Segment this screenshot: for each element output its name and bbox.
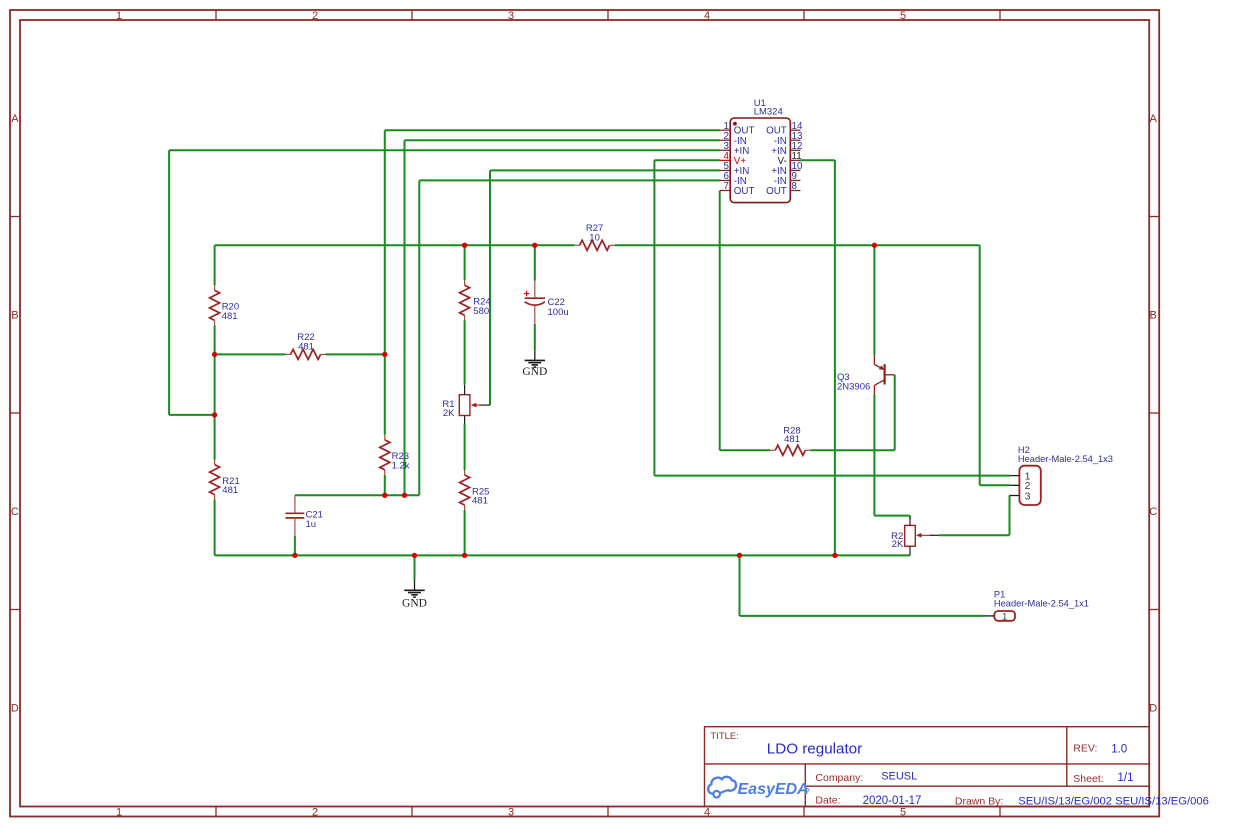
- wire: [489, 170, 491, 405]
- U1 pin 5 (+IN): [720, 161, 749, 177]
- svg-text:100u: 100u: [548, 307, 569, 318]
- transistor Q3 2N3906: [837, 355, 895, 395]
- svg-text:4: 4: [704, 806, 710, 818]
- svg-text:2K: 2K: [443, 408, 455, 419]
- svg-text:2K: 2K: [892, 539, 904, 550]
- svg-text:2020-01-17: 2020-01-17: [863, 795, 922, 807]
- svg-text:481: 481: [298, 342, 314, 353]
- junction node R20/R22: [212, 352, 217, 357]
- ground GND (C22): [522, 350, 547, 378]
- wire: [169, 414, 215, 416]
- wire: [873, 245, 875, 355]
- resistor R20: [210, 285, 240, 325]
- svg-text:4: 4: [704, 10, 710, 22]
- svg-text:A: A: [1150, 113, 1158, 125]
- wire: [214, 325, 216, 354]
- svg-text:Sheet:: Sheet:: [1073, 773, 1103, 785]
- junction node GND/bottom-rail: [412, 553, 417, 558]
- svg-text:1/1: 1/1: [1118, 772, 1134, 784]
- svg-text:5: 5: [900, 10, 906, 22]
- svg-text:LDO regulator: LDO regulator: [767, 741, 862, 758]
- junction node R23-bottom: [382, 493, 387, 498]
- wire: [719, 191, 721, 451]
- wire: [654, 475, 1009, 477]
- resistor R27: [575, 223, 615, 250]
- svg-text:GND: GND: [402, 597, 427, 609]
- wire: [384, 130, 386, 435]
- U1 pin 9 (-IN): [774, 171, 801, 187]
- resistor R22: [286, 332, 326, 359]
- wire: [405, 139, 721, 141]
- svg-text:Drawn By:: Drawn By:: [955, 795, 1003, 807]
- wire: [214, 245, 216, 285]
- resistor R21: [210, 460, 240, 500]
- wire: [740, 615, 986, 617]
- svg-text:580: 580: [473, 306, 489, 317]
- resistor R24: [460, 280, 491, 320]
- U1 pin 3 (+IN): [720, 141, 749, 157]
- wire: [384, 475, 386, 495]
- wire: [490, 169, 720, 171]
- svg-text:2N3906: 2N3906: [837, 382, 870, 393]
- junction node C22/top-rail: [532, 243, 537, 248]
- wire: [894, 375, 896, 450]
- wire: [214, 500, 216, 556]
- wire: [739, 555, 741, 616]
- wire: [810, 449, 894, 451]
- wire: [215, 244, 575, 246]
- svg-text:7: 7: [724, 181, 729, 192]
- svg-text:SEUSL: SEUSL: [881, 770, 917, 782]
- svg-text:Header-Male-2.54_1x3: Header-Male-2.54_1x3: [1018, 454, 1113, 464]
- wire: [979, 245, 981, 485]
- svg-text:B: B: [1150, 310, 1157, 322]
- svg-text:TITLE:: TITLE:: [710, 731, 739, 742]
- junction node pin3-net: [212, 412, 217, 417]
- svg-text:1u: 1u: [306, 519, 317, 530]
- svg-text:481: 481: [222, 311, 238, 322]
- junction node V-/bottom-rail: [832, 553, 837, 558]
- U1 pin 2 (-IN): [720, 131, 747, 147]
- svg-text:1.2k: 1.2k: [392, 460, 410, 471]
- svg-text:Company:: Company:: [815, 772, 863, 784]
- svg-text:5: 5: [900, 806, 906, 818]
- svg-text:Date:: Date:: [815, 795, 840, 807]
- wire: [720, 449, 771, 451]
- svg-text:SEU/IS/13/EG/002 SEU/IS/13/EG/: SEU/IS/13/EG/002 SEU/IS/13/EG/006: [1018, 796, 1209, 808]
- svg-text:C: C: [11, 506, 19, 518]
- wire: [168, 150, 170, 415]
- wire: [464, 510, 466, 555]
- svg-text:REV:: REV:: [1073, 742, 1097, 754]
- header P1 Header-Male-2.54_1x1: [985, 590, 1089, 623]
- wire: [326, 353, 385, 355]
- resistor R28: [770, 426, 810, 456]
- U1 pin 1 (OUT): [720, 121, 754, 137]
- junction node R22/R23: [382, 352, 387, 357]
- svg-text:3: 3: [1025, 490, 1031, 502]
- potentiometer R2: [891, 525, 915, 550]
- R1 wiper arrow: [465, 385, 490, 424]
- svg-text:B: B: [11, 310, 18, 322]
- U1 pin 10 (+IN): [771, 161, 803, 177]
- wire: [874, 515, 910, 517]
- U1 pin 6 (-IN): [720, 171, 747, 187]
- junction node C21/bottom-rail: [292, 553, 297, 558]
- junction node R25/bottom-rail: [462, 553, 467, 558]
- svg-text:3: 3: [508, 10, 514, 22]
- U1 pin 11 (V-): [778, 151, 802, 167]
- R2 wiper arrow: [910, 519, 939, 555]
- wire: [214, 354, 216, 459]
- capacitor C21: [286, 495, 323, 536]
- U1 pin 12 (+IN): [771, 141, 802, 157]
- ground GND (bottom rail): [402, 580, 427, 609]
- wire: [534, 324, 536, 350]
- wire: [418, 180, 420, 495]
- svg-text:2: 2: [312, 10, 318, 22]
- svg-text:1.0: 1.0: [1111, 743, 1127, 755]
- U1 pin 8 (OUT): [766, 181, 800, 197]
- svg-text:1: 1: [116, 10, 122, 22]
- wire: [834, 160, 836, 555]
- wire: [169, 149, 720, 151]
- wire: [215, 554, 910, 556]
- wire: [464, 245, 466, 280]
- svg-text:OUT: OUT: [734, 186, 755, 197]
- wire: [939, 534, 1010, 536]
- resistor R23: [380, 435, 410, 475]
- title block: [705, 727, 1209, 808]
- wire: [873, 395, 875, 516]
- potentiometer R1: [442, 395, 470, 419]
- wire: [419, 179, 720, 181]
- svg-text:EasyEDA: EasyEDA: [738, 781, 809, 798]
- svg-text:LM324: LM324: [754, 107, 783, 118]
- wire: [414, 555, 416, 580]
- wire: [464, 424, 466, 471]
- svg-text:GND: GND: [522, 366, 547, 378]
- svg-text:481: 481: [784, 434, 800, 445]
- wire: [534, 245, 536, 280]
- wire: [653, 160, 655, 475]
- header H2 Header-Male-2.54_1x3: [1010, 445, 1113, 505]
- svg-text:10: 10: [589, 233, 600, 244]
- wire: [800, 159, 835, 161]
- wire: [615, 244, 980, 246]
- junction node P1/bottom-rail: [737, 553, 742, 558]
- svg-text:481: 481: [472, 496, 488, 507]
- svg-text:8: 8: [792, 181, 798, 192]
- svg-text:A: A: [11, 113, 19, 125]
- wire: [294, 536, 296, 556]
- U1 pin 7 (OUT): [720, 181, 754, 197]
- wire: [404, 140, 406, 495]
- junction node Q3-emitter/top-rail: [872, 243, 877, 248]
- capacitor C22: [524, 281, 569, 324]
- op-amp U1 LM324: [730, 98, 790, 203]
- svg-text:1: 1: [116, 806, 122, 818]
- wire: [385, 129, 720, 131]
- svg-text:1: 1: [1002, 612, 1007, 623]
- svg-text:3: 3: [508, 806, 514, 818]
- junction node pin2-net: [402, 493, 407, 498]
- EasyEDA logo: [708, 777, 809, 798]
- U1 pin 13 (-IN): [774, 131, 803, 147]
- svg-text:481: 481: [222, 485, 238, 496]
- wire: [464, 320, 466, 385]
- wire: [215, 353, 286, 355]
- wire: [980, 484, 1010, 486]
- wire: [654, 159, 720, 161]
- wire: [909, 516, 911, 520]
- U1 pin 14 (OUT): [766, 121, 803, 137]
- wire: [1009, 496, 1011, 536]
- svg-text:D: D: [11, 703, 19, 715]
- svg-text:2: 2: [312, 806, 318, 818]
- svg-text:C: C: [1149, 506, 1157, 518]
- junction node R24/top-rail: [462, 243, 467, 248]
- svg-text:Header-Male-2.54_1x1: Header-Male-2.54_1x1: [994, 599, 1089, 609]
- wire: [295, 494, 419, 496]
- U1 pin 4 (V+): [720, 151, 746, 167]
- resistor R25: [460, 470, 490, 510]
- svg-text:OUT: OUT: [766, 186, 787, 197]
- svg-text:D: D: [1149, 703, 1157, 715]
